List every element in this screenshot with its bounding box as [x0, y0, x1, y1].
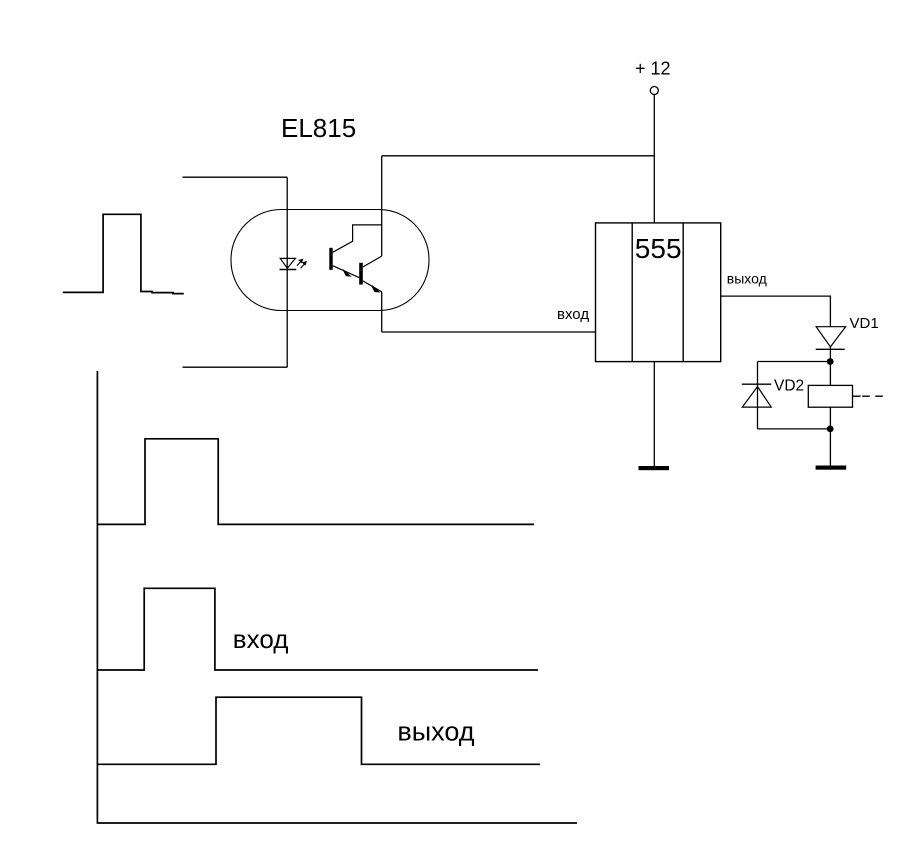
- svg-text:EL815: EL815: [281, 113, 356, 143]
- waveform 1: optocoupler output pulse: [98, 439, 534, 525]
- optocoupler U1 EL815 body: [231, 210, 429, 311]
- svg-text:выход: выход: [397, 717, 474, 747]
- ground (relay branch): [816, 466, 847, 470]
- wire: VD1 cathode down: [829, 347, 831, 386]
- transistor Q2 collector: [363, 256, 382, 267]
- transistor Q1 emitter: [333, 266, 360, 278]
- +12 supply terminal: [650, 87, 658, 95]
- wire: +12 terminal to 555 Vcc: [653, 95, 655, 223]
- transistor Q1 collector: [333, 225, 382, 252]
- wire: 555 output to VD1: [721, 296, 831, 327]
- LED light arrows: [297, 259, 306, 268]
- svg-text:вход: вход: [233, 624, 289, 654]
- wire: relay coil bottom to node B to ground: [829, 407, 831, 465]
- node A junction dot: [827, 358, 834, 365]
- waveform 2: вход pulse: [97, 588, 538, 670]
- transistor Q1 (photo-darlington input) base bar: [329, 248, 332, 270]
- wire: opto collector to +12 rail: [382, 155, 655, 157]
- wire: node A to VD2 branch: [758, 361, 831, 363]
- diode VD1: [816, 327, 845, 347]
- svg-text:555: 555: [635, 233, 682, 264]
- svg-text:вход: вход: [557, 306, 589, 323]
- svg-text:выход: выход: [727, 271, 767, 287]
- wire: LED anode loop (top): [183, 176, 288, 178]
- IC U2: 555 timer box: [596, 223, 721, 362]
- wire: VD2 branch vertical: [757, 362, 759, 429]
- wire: opto collector pin up: [381, 156, 383, 256]
- wire: opto emitter to 555 input: [382, 331, 596, 333]
- wire: LED cathode loop (bottom): [183, 366, 288, 368]
- svg-text:+ 12: + 12: [635, 59, 671, 79]
- LED D1 (optocoupler emitter diode): [280, 258, 295, 268]
- timing diagram horizontal axis: [97, 822, 577, 824]
- node B junction dot: [827, 426, 834, 433]
- relay actuation dashed line: [853, 395, 883, 397]
- diode VD2 (flyback): [742, 383, 771, 385]
- wire: VD2 branch bottom: [758, 428, 831, 430]
- transistor Q2 (photo-darlington output) base bar: [359, 263, 363, 285]
- relay K1 coil: [808, 385, 852, 407]
- wire: LED pin vertical: [286, 177, 288, 367]
- svg-text:VD1: VD1: [850, 315, 879, 332]
- wire: opto emitter pin down: [381, 292, 383, 332]
- wire: 555 ground pin: [653, 362, 655, 466]
- transistor Q2 emitter: [363, 281, 382, 292]
- ground (555): [639, 466, 670, 470]
- waveform 3: выход pulse: [97, 697, 540, 764]
- timing diagram vertical axis: [96, 371, 98, 824]
- svg-text:VD2: VD2: [774, 378, 804, 395]
- input pulse waveform: [63, 214, 184, 293]
